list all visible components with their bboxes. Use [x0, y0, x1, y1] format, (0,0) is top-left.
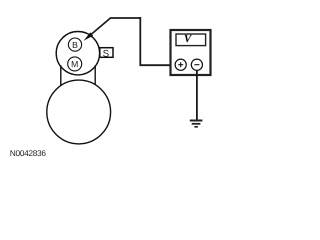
voltmeter V label	[185, 35, 192, 42]
terminal S	[100, 48, 113, 58]
solenoid	[56, 32, 99, 75]
ground	[190, 121, 203, 127]
wire from minus terminal to ground	[196, 70, 198, 120]
voltmeter display	[176, 34, 206, 46]
drive housing right wall	[94, 65, 96, 85]
voltmeter plus terminal	[175, 59, 186, 70]
starter motor body	[47, 80, 111, 144]
figure number N0042836	[10, 150, 45, 156]
voltmeter minus terminal	[191, 59, 202, 70]
wire top horizontal	[110, 17, 141, 19]
wire diagonal from probe to corner	[91, 18, 111, 35]
terminal B	[68, 38, 81, 51]
probe arrow	[84, 32, 93, 40]
terminal M	[68, 57, 82, 71]
wire vertical drop	[139, 17, 141, 65]
wire into voltmeter plus terminal	[140, 64, 178, 66]
voltmeter U1 body	[171, 30, 211, 75]
drive housing left wall	[60, 65, 62, 86]
